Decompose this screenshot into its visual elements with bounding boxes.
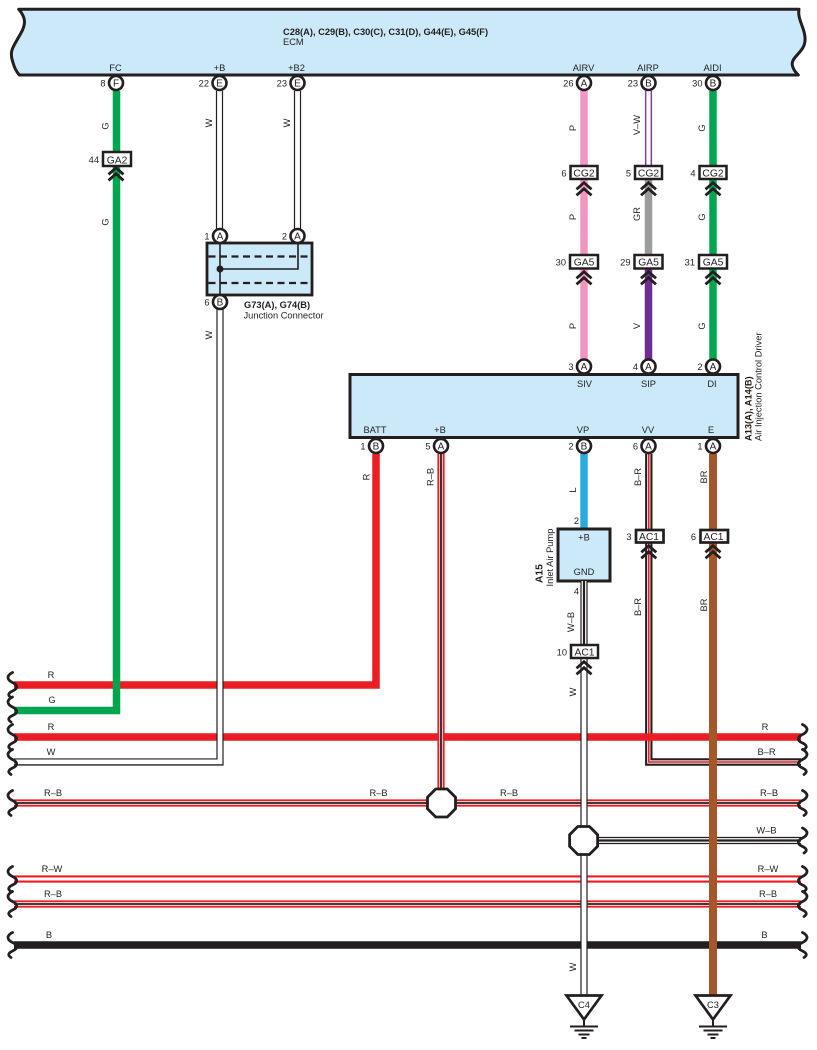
- wire W from 10 AC1 to ground C4: [580, 658, 587, 996]
- svg-text:F: F: [113, 79, 119, 90]
- ECM pin 30 B: [692, 76, 720, 90]
- svg-text:R: R: [48, 722, 55, 732]
- svg-text:GA2: GA2: [107, 156, 128, 167]
- svg-text:W–B: W–B: [566, 612, 576, 632]
- svg-text:C28(A), C29(B), C30(C), C31(D): C28(A), C29(B), C30(C), C31(D), G44(E), …: [283, 27, 488, 37]
- svg-text:VP: VP: [577, 425, 589, 435]
- svg-text:GA5: GA5: [703, 258, 724, 269]
- ECM block: [11, 9, 805, 75]
- svg-text:A15: A15: [535, 564, 546, 583]
- wire +B R-B down to octagon: [437, 454, 444, 790]
- svg-text:G: G: [697, 322, 707, 329]
- svg-text:26: 26: [563, 79, 573, 89]
- junction pin 2 A: [282, 229, 305, 243]
- svg-text:6: 6: [633, 442, 638, 452]
- wire AIDI green G: [709, 91, 717, 360]
- wire BATT red R down and left to torn end: [14, 454, 376, 685]
- svg-text:W: W: [47, 747, 56, 757]
- connector 4 CG2: [690, 166, 726, 195]
- svg-text:A: A: [645, 362, 652, 373]
- svg-text:A: A: [581, 79, 588, 90]
- connector 31 GA5: [685, 255, 727, 284]
- svg-text:B–R: B–R: [757, 747, 775, 757]
- svg-text:22: 22: [199, 79, 209, 89]
- svg-text:3: 3: [626, 532, 631, 542]
- svg-text:B: B: [581, 442, 588, 453]
- svg-text:G: G: [101, 218, 111, 225]
- svg-text:+B: +B: [214, 63, 226, 73]
- ECM pin 26 A: [563, 76, 591, 90]
- svg-text:W: W: [568, 687, 578, 696]
- wire +B white W (ECM to junction connector): [216, 91, 223, 230]
- svg-text:AIDI: AIDI: [703, 63, 721, 73]
- svg-text:FC: FC: [109, 63, 122, 73]
- svg-text:C4: C4: [578, 1000, 590, 1010]
- svg-text:V: V: [632, 322, 642, 329]
- svg-text:BR: BR: [699, 598, 709, 611]
- svg-text:23: 23: [277, 79, 287, 89]
- horizontal bus W-B from octagon to right: [584, 837, 801, 844]
- svg-text:2: 2: [568, 442, 573, 452]
- svg-text:B: B: [761, 930, 767, 940]
- svg-text:23: 23: [628, 79, 638, 89]
- svg-text:BR: BR: [699, 470, 709, 483]
- svg-text:E: E: [216, 79, 223, 90]
- svg-text:3: 3: [568, 362, 573, 372]
- svg-text:B: B: [46, 930, 52, 940]
- svg-text:R–W: R–W: [42, 864, 63, 874]
- wire AIRP V segment: [645, 261, 653, 360]
- ECM pin 23 B: [628, 76, 656, 90]
- svg-text:6: 6: [561, 169, 566, 179]
- wire FC green G: [14, 91, 117, 711]
- junction pin 1 A: [204, 229, 227, 243]
- svg-text:R–B: R–B: [44, 788, 62, 798]
- svg-text:CG2: CG2: [573, 169, 594, 180]
- connector 44 GA2: [89, 152, 131, 180]
- ECM pin 23 E: [277, 76, 305, 90]
- svg-text:AIRV: AIRV: [573, 63, 595, 73]
- svg-text:R–B: R–B: [369, 788, 387, 798]
- connector 6 CG2: [561, 166, 597, 195]
- svg-text:SIP: SIP: [641, 379, 656, 389]
- svg-text:R: R: [48, 670, 55, 680]
- A13 pin 1 A (E): [697, 439, 720, 453]
- connector 5 CG2: [626, 166, 662, 195]
- svg-text:Air Injection Control Driver: Air Injection Control Driver: [754, 333, 764, 442]
- svg-text:8: 8: [100, 79, 105, 89]
- svg-text:P: P: [568, 323, 578, 329]
- svg-text:Inlet Air Pump: Inlet Air Pump: [545, 529, 555, 587]
- svg-text:4: 4: [690, 169, 695, 179]
- svg-text:L: L: [568, 487, 578, 492]
- svg-text:C3: C3: [707, 1000, 719, 1010]
- svg-text:AIRP: AIRP: [637, 63, 659, 73]
- svg-text:ECM: ECM: [283, 37, 304, 47]
- svg-text:GR: GR: [632, 207, 642, 221]
- junction connector G73/G74: [207, 243, 324, 321]
- svg-text:30: 30: [556, 258, 566, 268]
- wire E BR brown down to ground C3: [709, 454, 717, 996]
- connector 30 GA5: [556, 255, 598, 284]
- svg-text:B–R: B–R: [633, 598, 643, 616]
- A13 pin 4 A (SIP): [633, 360, 656, 374]
- svg-text:R–B: R–B: [759, 889, 777, 899]
- svg-text:G: G: [48, 695, 55, 705]
- ECM pin 8 F: [100, 76, 123, 90]
- A13/A14 Air Injection Control Driver box: [350, 333, 764, 442]
- svg-text:B: B: [373, 442, 380, 453]
- svg-text:2: 2: [574, 516, 579, 526]
- wire VV B-R down then right: [649, 454, 801, 762]
- svg-text:+B: +B: [434, 425, 446, 435]
- svg-text:4: 4: [574, 587, 579, 597]
- svg-text:29: 29: [620, 258, 630, 268]
- A13 pin 5 A (+B): [425, 439, 448, 453]
- A13 pin 3 A (SIV): [568, 360, 591, 374]
- svg-text:G: G: [101, 122, 111, 129]
- svg-text:AC1: AC1: [703, 532, 723, 543]
- A13 pin 2 B (VP): [568, 439, 591, 453]
- svg-text:1: 1: [204, 232, 209, 242]
- wire VP L cyan: [580, 454, 588, 530]
- svg-text:G73(A), G74(B): G73(A), G74(B): [244, 300, 310, 310]
- svg-text:5: 5: [425, 442, 430, 452]
- svg-text:A: A: [710, 362, 717, 373]
- svg-text:P: P: [568, 125, 578, 131]
- horizontal bus B black: [14, 941, 801, 949]
- svg-text:4: 4: [633, 362, 638, 372]
- svg-text:SIV: SIV: [577, 379, 593, 389]
- octagon junction on W wire / W-B bus: [570, 827, 598, 855]
- connector 29 GA5: [620, 255, 662, 284]
- svg-text:A: A: [581, 362, 588, 373]
- horizontal bus R full width: [14, 733, 801, 741]
- svg-text:10: 10: [557, 648, 567, 658]
- torn wire ends right: [798, 725, 807, 750]
- svg-text:R: R: [762, 722, 769, 732]
- svg-text:G: G: [697, 124, 707, 131]
- svg-text:A: A: [710, 442, 717, 453]
- A13 pin 1 B (BATT): [360, 439, 383, 453]
- svg-text:+B2: +B2: [288, 63, 305, 73]
- connector 10 AC1: [557, 645, 598, 674]
- svg-text:6: 6: [204, 298, 209, 308]
- svg-text:1: 1: [360, 442, 365, 452]
- horizontal bus R-W: [14, 875, 801, 882]
- svg-text:GA5: GA5: [638, 258, 659, 269]
- A13 pin 2 A (DI): [697, 360, 720, 374]
- svg-text:5: 5: [626, 169, 631, 179]
- svg-text:CG2: CG2: [638, 169, 659, 180]
- svg-text:R–B: R–B: [44, 889, 62, 899]
- svg-text:W: W: [282, 118, 292, 127]
- wire AIRP V-W segment: [645, 91, 652, 172]
- svg-text:B–R: B–R: [633, 468, 643, 486]
- octagon junction on R-B bus: [428, 789, 456, 817]
- svg-text:6: 6: [691, 532, 696, 542]
- svg-text:R–B: R–B: [760, 788, 778, 798]
- connector 3 AC1: [626, 530, 663, 558]
- torn wire ends left: [8, 673, 17, 698]
- svg-text:Junction Connector: Junction Connector: [244, 311, 324, 321]
- wire AIRP GR segment: [645, 172, 653, 261]
- svg-text:A: A: [438, 442, 445, 453]
- svg-text:W: W: [204, 118, 214, 127]
- svg-text:V–W: V–W: [632, 115, 642, 135]
- svg-text:E: E: [708, 425, 714, 435]
- svg-text:B: B: [645, 79, 652, 90]
- horizontal bus R-B full width with octagon junction: [14, 799, 801, 806]
- svg-text:30: 30: [692, 79, 702, 89]
- A15 Inlet Air Pump box: [535, 516, 611, 597]
- svg-text:A: A: [217, 232, 224, 243]
- wire +B2 white W (ECM to junction connector): [294, 91, 301, 230]
- svg-text:R–W: R–W: [758, 864, 779, 874]
- svg-text:G: G: [697, 213, 707, 220]
- svg-text:BATT: BATT: [363, 425, 386, 435]
- horizontal bus R-B lower: [14, 900, 801, 907]
- svg-text:1: 1: [697, 442, 702, 452]
- connector 6 AC1: [691, 530, 728, 558]
- svg-text:E: E: [294, 79, 301, 90]
- wire W-B pump GND to 10 AC1: [580, 581, 587, 646]
- svg-text:R–B: R–B: [426, 468, 436, 486]
- svg-text:VV: VV: [642, 425, 655, 435]
- svg-text:AC1: AC1: [574, 648, 594, 659]
- wire AIRV pink P: [580, 91, 588, 360]
- svg-text:AC1: AC1: [639, 532, 659, 543]
- ECM pin 22 E: [199, 76, 227, 90]
- svg-text:R–B: R–B: [500, 788, 518, 798]
- svg-text:GND: GND: [574, 567, 595, 577]
- svg-text:B: B: [217, 298, 224, 309]
- svg-text:+B: +B: [578, 533, 590, 543]
- ground C3: [696, 996, 731, 1039]
- svg-text:W: W: [568, 962, 578, 971]
- svg-text:2: 2: [282, 232, 287, 242]
- svg-text:31: 31: [685, 258, 695, 268]
- svg-text:2: 2: [697, 362, 702, 372]
- svg-text:A: A: [294, 232, 301, 243]
- svg-text:W–B: W–B: [756, 826, 776, 836]
- svg-text:R: R: [362, 473, 372, 480]
- svg-text:P: P: [568, 214, 578, 220]
- svg-text:44: 44: [89, 155, 99, 165]
- A13 pin 6 A (VV): [633, 439, 656, 453]
- svg-text:W: W: [204, 330, 214, 339]
- svg-text:A13(A), A14(B): A13(A), A14(B): [744, 376, 754, 441]
- wire W from junction connector pin 6B down and left to torn end: [14, 309, 220, 762]
- svg-text:B: B: [710, 79, 717, 90]
- svg-text:A: A: [645, 442, 652, 453]
- junction pin 6 B: [204, 295, 227, 309]
- svg-text:CG2: CG2: [702, 169, 723, 180]
- ground C4: [567, 996, 602, 1039]
- svg-text:GA5: GA5: [574, 258, 595, 269]
- svg-text:DI: DI: [707, 379, 716, 389]
